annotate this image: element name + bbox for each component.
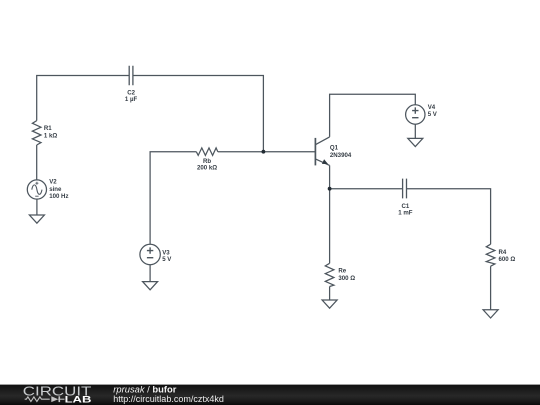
svg-text:300 Ω: 300 Ω: [338, 275, 355, 282]
svg-text:100 Hz: 100 Hz: [49, 193, 68, 200]
wire R4 bottom to ground: [490, 266, 492, 310]
wire Rb right lead to Q1 base: [218, 151, 316, 153]
V2 plus mark: [35, 182, 38, 185]
transistor Q1 collector diagonal: [315, 137, 329, 145]
wire Re bottom to ground: [329, 287, 331, 301]
wire R1 top to C2 left plate: [37, 76, 130, 121]
V4 minus mark: [412, 117, 418, 119]
resistor Re: [325, 263, 334, 286]
svg-text:sine: sine: [49, 186, 62, 193]
svg-text:1 µF: 1 µF: [125, 96, 138, 103]
V2 sine symbol: [32, 185, 42, 194]
transistor Q1 emitter diagonal: [315, 159, 329, 166]
wire Q1 collector to V4 top: [330, 94, 416, 137]
wire C1 right plate to R4 top: [407, 189, 491, 245]
transistor Q1 base bar: [314, 138, 316, 166]
svg-text:V4: V4: [428, 104, 436, 111]
voltage source V4 circle: [406, 105, 425, 124]
svg-text:Q1: Q1: [330, 144, 339, 151]
wire V4 bottom to ground: [414, 124, 416, 138]
svg-text:5 V: 5 V: [162, 256, 172, 263]
svg-text:1 mF: 1 mF: [398, 209, 413, 216]
svg-text:V2: V2: [49, 179, 57, 186]
svg-text:200 kΩ: 200 kΩ: [197, 165, 217, 172]
logo diode symbol: [51, 396, 58, 402]
wire R1 bottom to V2 top: [36, 145, 38, 180]
svg-text:http://circuitlab.com/cztx4kd: http://circuitlab.com/cztx4kd: [113, 394, 224, 404]
svg-text:Re: Re: [338, 268, 346, 275]
voltage source V3 circle: [140, 244, 160, 264]
resistor R1: [32, 121, 41, 145]
ground below Re: [322, 300, 337, 308]
logo resistor zigzag: [25, 397, 50, 402]
transistor Q1 emitter arrow: [322, 159, 328, 164]
capacitor C1 plates: [403, 179, 407, 199]
V4 plus mark: [412, 107, 418, 113]
svg-text:LAB: LAB: [65, 395, 92, 405]
wire V3 bottom to ground: [149, 265, 151, 282]
wire emitter node to C1 left plate: [330, 188, 403, 190]
node: emitter junction dot: [328, 187, 332, 191]
resistor R4: [486, 244, 495, 266]
ground below V4: [408, 138, 423, 146]
ground below V3: [143, 282, 158, 290]
capacitor C2 plates: [129, 66, 133, 85]
wire V2 bottom to ground: [36, 199, 38, 215]
wire Q1 emitter down through node to Re top: [329, 165, 331, 263]
svg-text:2N3904: 2N3904: [330, 152, 352, 159]
footer bar: [0, 385, 540, 405]
node: base junction dot: [262, 150, 266, 154]
svg-text:600 Ω: 600 Ω: [499, 256, 516, 263]
svg-text:5 V: 5 V: [428, 111, 438, 118]
svg-text:1 kΩ: 1 kΩ: [44, 133, 57, 140]
svg-text:R1: R1: [44, 125, 52, 132]
voltage source V2 circle: [27, 180, 46, 199]
V3 minus mark: [147, 257, 153, 259]
svg-text:R4: R4: [499, 249, 507, 256]
V2 minus mark: [35, 195, 38, 197]
V3 plus mark: [147, 247, 153, 253]
ground below V2: [29, 215, 44, 223]
resistor Rb: [196, 148, 218, 156]
wire C2 right plate to base node: [133, 76, 264, 152]
ground below R4: [483, 310, 498, 318]
wire V3 top to Rb left lead: [150, 152, 196, 245]
